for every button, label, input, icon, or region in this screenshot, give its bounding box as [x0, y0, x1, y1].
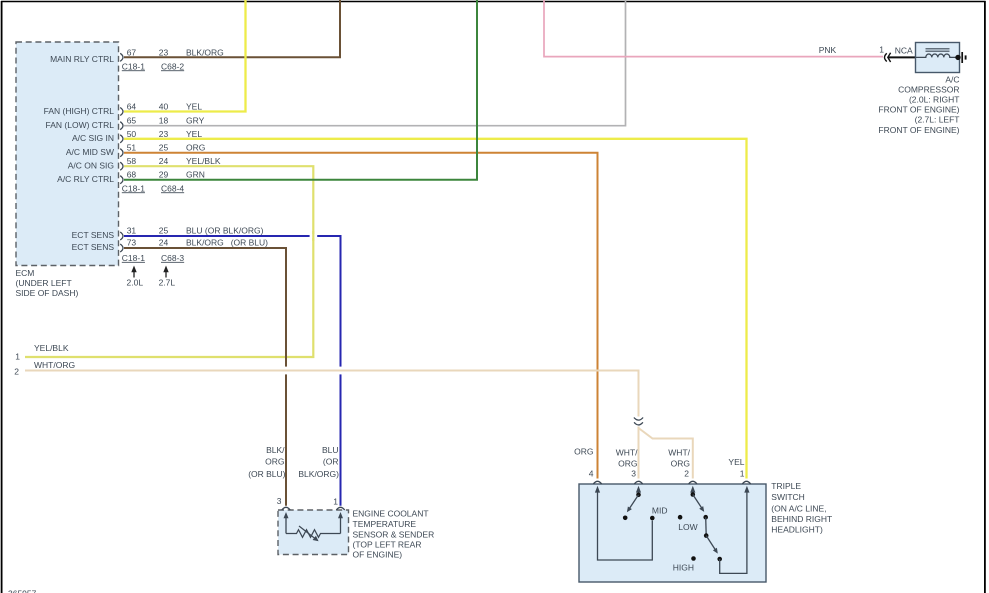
- wire BLK/ORG pin67: [124, 0, 340, 57]
- svg-text:18: 18: [159, 116, 169, 126]
- svg-text:23: 23: [159, 47, 169, 57]
- ECM pin numbers and wire colour labels: [127, 47, 268, 247]
- svg-text:NCA: NCA: [895, 46, 913, 56]
- svg-text:C18-1: C18-1: [122, 61, 145, 71]
- wire between switch stages: [705, 517, 708, 535]
- svg-text:ECT SENS: ECT SENS: [72, 230, 115, 240]
- HIGH switch arm: [706, 536, 716, 551]
- svg-text:TEMPERATURE: TEMPERATURE: [353, 519, 417, 529]
- svg-text:WHT/ORG: WHT/ORG: [34, 360, 75, 370]
- svg-text:SENSOR & SENDER: SENSOR & SENDER: [353, 529, 435, 539]
- svg-text:BLK/ORG: BLK/ORG: [186, 238, 224, 248]
- svg-text:COMPRESSOR: COMPRESSOR: [898, 85, 959, 95]
- svg-text:A/C RLY CTRL: A/C RLY CTRL: [57, 174, 114, 184]
- ECM left pin name labels: [44, 54, 115, 252]
- svg-text:40: 40: [159, 102, 169, 112]
- svg-text:OF ENGINE): OF ENGINE): [353, 549, 403, 559]
- ECM pin arcs: [120, 53, 123, 252]
- svg-text:WHT/: WHT/: [668, 448, 690, 458]
- switch pin 1 arrow: [744, 486, 749, 493]
- svg-text:1: 1: [740, 469, 745, 479]
- svg-text:GRY: GRY: [186, 116, 205, 126]
- A/C compressor caption: [878, 75, 959, 135]
- svg-text:LOW: LOW: [678, 522, 697, 532]
- svg-text:SWITCH: SWITCH: [771, 492, 805, 502]
- svg-text:GRN: GRN: [186, 170, 205, 180]
- wire YEL/BLK pin58 off-page 1: [25, 166, 313, 357]
- svg-text:MID: MID: [652, 505, 668, 515]
- svg-text:C68-3: C68-3: [161, 253, 184, 263]
- svg-text:C18-1: C18-1: [122, 183, 145, 193]
- A/C compressor clutch coil box: [916, 43, 960, 73]
- svg-text:4: 4: [589, 469, 594, 479]
- wire GRN pin68: [124, 0, 477, 180]
- wire WHT/ORG off-page 2: [25, 371, 639, 417]
- svg-text:SIDE OF DASH): SIDE OF DASH): [16, 288, 79, 298]
- svg-text:25: 25: [159, 143, 169, 153]
- svg-text:ORG: ORG: [671, 459, 690, 469]
- svg-text:2: 2: [14, 367, 19, 377]
- svg-text:24: 24: [159, 238, 169, 248]
- svg-text:(ON A/C LINE,: (ON A/C LINE,: [771, 504, 826, 514]
- 2.0L arrow: [133, 271, 135, 278]
- wire WHT/ORG to switch pin3: [638, 427, 640, 479]
- thermistor R1: [286, 526, 341, 538]
- svg-text:ORG: ORG: [618, 459, 637, 469]
- page frame top border: [1, 1, 986, 3]
- triple switch wire labels: [574, 447, 745, 469]
- svg-text:A/C SIG IN: A/C SIG IN: [72, 133, 114, 143]
- svg-text:2: 2: [684, 469, 689, 479]
- wire crossing break blue over YEL/BLK: [310, 234, 318, 238]
- svg-text:FAN (HIGH) CTRL: FAN (HIGH) CTRL: [44, 106, 115, 116]
- 2.7L arrow: [165, 271, 167, 278]
- sensor pin 3 arrow: [285, 516, 287, 534]
- svg-text:25: 25: [159, 226, 169, 236]
- ECT sensor wire labels: [248, 445, 339, 479]
- svg-text:(2.0L: RIGHT: (2.0L: RIGHT: [909, 94, 960, 104]
- wire crossing break at WHT/ORG over BLK/ORG vertical: [284, 367, 288, 375]
- wire BLU pin31 to ECT sensor pin1: [124, 236, 341, 506]
- wire WHT/ORG branch to switch pin2: [639, 428, 693, 479]
- triple switch pin numbers: [589, 469, 745, 479]
- svg-text:BLK/ORG: BLK/ORG: [186, 47, 224, 57]
- wire BLK/ORG pin73 to ECT sensor pin3: [124, 248, 286, 506]
- node LOW open contact: [678, 515, 683, 520]
- svg-text:(OR BLU): (OR BLU): [248, 469, 285, 479]
- svg-text:24: 24: [159, 156, 169, 166]
- svg-text:68: 68: [127, 170, 137, 180]
- sensor pin 3 arc: [282, 507, 290, 510]
- switch pin 2 arc: [689, 481, 697, 484]
- svg-text:HIGH: HIGH: [673, 562, 694, 572]
- inline connector on WHT/ORG wire: [634, 418, 643, 425]
- svg-text:ECM: ECM: [16, 268, 35, 278]
- svg-text:58: 58: [127, 156, 137, 166]
- node dot at compressor ground: [955, 55, 960, 60]
- svg-text:3: 3: [277, 496, 282, 506]
- node LOW arm contact: [703, 515, 708, 520]
- svg-text:(2.7L: LEFT: (2.7L: LEFT: [915, 115, 960, 125]
- svg-text:(UNDER LEFT: (UNDER LEFT: [16, 278, 72, 288]
- node pin3 common dot: [636, 493, 641, 498]
- switch pin 3 arrow: [638, 490, 640, 493]
- switch pin 4 arrow and wire to MID contact: [598, 490, 653, 560]
- svg-text:(OR: (OR: [323, 457, 339, 467]
- node MID open contact: [623, 516, 628, 521]
- svg-text:A/C MID SW: A/C MID SW: [66, 147, 114, 157]
- svg-text:(OR BLU): (OR BLU): [231, 238, 268, 248]
- svg-text:FRONT OF ENGINE): FRONT OF ENGINE): [878, 105, 959, 115]
- svg-text:MAIN RLY CTRL: MAIN RLY CTRL: [50, 54, 114, 64]
- svg-text:ENGINE COOLANT: ENGINE COOLANT: [353, 509, 429, 519]
- svg-text:365957: 365957: [8, 589, 37, 593]
- svg-text:51: 51: [127, 143, 137, 153]
- svg-text:HEADLIGHT): HEADLIGHT): [771, 524, 823, 534]
- svg-text:C68-4: C68-4: [161, 183, 184, 193]
- node HIGH arm contact: [717, 557, 722, 562]
- svg-text:ORG: ORG: [574, 447, 593, 457]
- svg-text:PNK: PNK: [819, 45, 837, 55]
- svg-text:29: 29: [159, 170, 169, 180]
- svg-text:BLU: BLU: [186, 226, 203, 236]
- svg-text:BLU: BLU: [322, 445, 339, 455]
- svg-text:YEL: YEL: [186, 129, 202, 139]
- svg-text:BLK/: BLK/: [266, 445, 285, 455]
- ECM U1 box: [16, 42, 119, 266]
- node pin2 common dot: [691, 492, 696, 497]
- page frame left border: [1, 1, 3, 593]
- switch pin 1 arc: [742, 481, 750, 484]
- node MID contact dot: [650, 516, 655, 521]
- svg-text:2.7L: 2.7L: [159, 278, 176, 288]
- node second stage common dot: [704, 533, 709, 538]
- svg-text:YEL: YEL: [186, 102, 202, 112]
- ECT sensor caption: [353, 509, 435, 560]
- svg-text:23: 23: [159, 129, 169, 139]
- svg-text:31: 31: [127, 226, 137, 236]
- wire YEL pin50 to triple switch pin1: [124, 139, 747, 479]
- svg-text:ECT SENS: ECT SENS: [72, 242, 115, 252]
- svg-text:BLK/ORG): BLK/ORG): [298, 469, 339, 479]
- svg-text:65: 65: [127, 116, 137, 126]
- svg-text:ORG: ORG: [265, 457, 284, 467]
- svg-text:FAN (LOW) CTRL: FAN (LOW) CTRL: [46, 120, 115, 130]
- off page labels 1 YEL/BLK and 2 WHT/ORG: [14, 343, 75, 377]
- switch pin 2 arrow: [692, 490, 694, 493]
- ground G1: [962, 52, 965, 63]
- svg-text:YEL/BLK: YEL/BLK: [34, 343, 69, 353]
- svg-text:1: 1: [879, 45, 884, 55]
- clutch coil: [916, 54, 958, 57]
- connector C18-1 / C68-2 labels: [122, 61, 185, 263]
- svg-text:1: 1: [15, 352, 20, 362]
- svg-text:73: 73: [127, 238, 137, 248]
- svg-text:WHT/: WHT/: [616, 448, 638, 458]
- engine coolant temperature sensor box: [278, 510, 349, 555]
- svg-text:64: 64: [127, 102, 137, 112]
- LOW switch arm: [693, 495, 703, 509]
- wire GRY pin65: [124, 0, 626, 126]
- connector 1 at A/C compressor: [885, 53, 891, 62]
- svg-text:(TOP LEFT REAR: (TOP LEFT REAR: [353, 539, 422, 549]
- page frame right border: [984, 1, 986, 593]
- sensor pin 1 arc: [336, 507, 344, 510]
- svg-text:YEL/BLK: YEL/BLK: [186, 156, 221, 166]
- switch pin 3 arc: [634, 481, 642, 484]
- svg-text:A/C ON SIG: A/C ON SIG: [68, 161, 114, 171]
- wire NCA black to compressor: [889, 56, 917, 58]
- svg-text:BEHIND RIGHT: BEHIND RIGHT: [771, 514, 832, 524]
- svg-text:3: 3: [631, 469, 636, 479]
- svg-text:YEL: YEL: [728, 457, 744, 467]
- triple switch caption: [771, 481, 832, 534]
- wire ORG pin51 to triple switch pin4: [124, 153, 598, 479]
- svg-text:2.0L: 2.0L: [127, 278, 144, 288]
- svg-text:67: 67: [127, 47, 137, 57]
- svg-text:1: 1: [333, 497, 338, 507]
- sensor pin 1 arrow: [340, 516, 342, 534]
- MID switch arm: [629, 495, 639, 509]
- triple switch box: [579, 484, 766, 582]
- svg-text:A/C: A/C: [945, 75, 959, 85]
- svg-text:FRONT OF ENGINE): FRONT OF ENGINE): [878, 125, 959, 135]
- svg-text:50: 50: [127, 129, 137, 139]
- wire HIGH contact to pin 1: [720, 490, 747, 573]
- coil core lines: [926, 48, 950, 50]
- wire PNK to A/C compressor: [544, 0, 883, 57]
- svg-text:C18-1: C18-1: [122, 253, 145, 263]
- svg-text:C68-2: C68-2: [161, 61, 184, 71]
- svg-text:ORG: ORG: [186, 143, 205, 153]
- wire crossing break at WHT/ORG over BLU vertical: [339, 367, 343, 375]
- switch pin 4 arc: [593, 481, 601, 484]
- svg-text:TRIPLE: TRIPLE: [771, 481, 801, 491]
- svg-text:(OR BLK/ORG): (OR BLK/ORG): [205, 226, 264, 236]
- wire YEL pin64: [124, 0, 246, 112]
- node HIGH open contact: [691, 556, 696, 561]
- ECM caption: [16, 268, 79, 298]
